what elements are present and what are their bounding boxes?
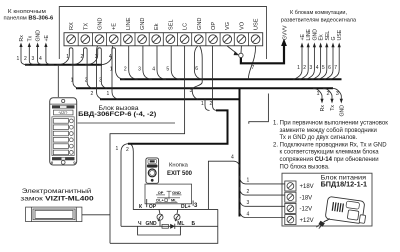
svg-text:GND: GND: [98, 18, 104, 30]
svg-text:OP: OP: [158, 190, 164, 195]
svg-text:4: 4: [247, 211, 250, 217]
svg-text:LINE: LINE: [306, 28, 312, 40]
svg-text:6: 6: [195, 66, 198, 72]
svg-text:3: 3: [336, 91, 339, 97]
svg-text:-18V: -18V: [300, 195, 313, 201]
svg-text:ПО блока вызова.: ПО блока вызова.: [280, 164, 330, 170]
svg-text:1: 1: [247, 178, 250, 184]
svg-text:3: 3: [247, 200, 250, 206]
svg-text:4: 4: [39, 56, 42, 62]
svg-text:2: 2: [247, 189, 250, 195]
svg-text:G: G: [331, 36, 337, 40]
svg-text:4: 4: [316, 65, 319, 71]
svg-text:2: 2: [210, 101, 213, 107]
svg-text:3: 3: [190, 88, 193, 94]
svg-text:SEL: SEL: [168, 19, 174, 30]
svg-text:Rx: Rx: [19, 35, 25, 42]
svg-text:2: 2: [124, 67, 127, 73]
svg-text:GND: GND: [197, 18, 203, 30]
svg-text:2: 2: [327, 91, 330, 97]
svg-text:4: 4: [152, 67, 155, 73]
svg-text:+E: +E: [112, 23, 118, 30]
svg-text:Ek: Ek: [154, 23, 160, 30]
svg-text:БВД-306FCP-6 (-4, -2): БВД-306FCP-6 (-4, -2): [78, 111, 156, 118]
svg-text:ML: ML: [171, 198, 177, 203]
svg-text:GND: GND: [172, 190, 181, 195]
svg-text:3: 3: [310, 65, 313, 71]
svg-text:7: 7: [334, 65, 337, 71]
svg-text:GND: GND: [339, 105, 345, 117]
svg-text:БПД18/12-1-1: БПД18/12-1-1: [321, 181, 368, 188]
svg-text:+E: +E: [300, 33, 306, 40]
svg-text:1: 1: [201, 101, 204, 107]
svg-text:3: 3: [99, 78, 102, 84]
svg-text:OP: OP: [149, 204, 157, 210]
svg-text:USE: USE: [337, 29, 343, 40]
svg-text:Tx: Tx: [27, 35, 33, 41]
svg-text:1: 1: [71, 78, 74, 84]
svg-text:SEL: SEL: [325, 31, 331, 41]
svg-text:EXIT 500: EXIT 500: [167, 171, 193, 177]
svg-text:GND: GND: [36, 30, 42, 42]
svg-text:LINE: LINE: [126, 17, 132, 30]
svg-text:OP: OP: [211, 22, 217, 30]
svg-text:1: 1: [107, 91, 110, 97]
svg-text:2: 2: [91, 91, 94, 97]
svg-text:GND: GND: [140, 18, 146, 30]
svg-text:LC: LC: [183, 23, 189, 30]
svg-text:разветвителям видеосигнала: разветвителям видеосигнала: [281, 18, 357, 24]
svg-text:Электромагнитный: Электромагнитный: [22, 187, 92, 195]
svg-text:7: 7: [252, 65, 255, 71]
svg-text:1: 1: [317, 91, 320, 97]
svg-text:1: 1: [297, 65, 300, 71]
svg-text:Ek: Ek: [319, 34, 325, 40]
svg-text:TX: TX: [83, 23, 89, 30]
svg-text:1: 1: [17, 56, 20, 62]
svg-text:RX: RX: [69, 22, 75, 30]
svg-text:+18V: +18V: [300, 184, 314, 190]
svg-text:4: 4: [231, 155, 234, 161]
svg-text:2: 2: [24, 56, 27, 62]
svg-text:+12V: +12V: [300, 218, 314, 224]
svg-text:1: 1: [116, 146, 119, 152]
svg-text:VO: VO: [239, 21, 245, 30]
svg-text:2: 2: [85, 78, 88, 84]
svg-text:USE: USE: [254, 18, 260, 30]
svg-text:Кнопка: Кнопка: [169, 163, 189, 169]
svg-text:к соответствующим клеммам блок: к соответствующим клеммам блока: [280, 150, 380, 156]
svg-text:5: 5: [322, 65, 325, 71]
svg-text:панелям BS-306-6: панелям BS-306-6: [4, 16, 55, 22]
svg-text:К кнопочным: К кнопочным: [8, 9, 46, 15]
svg-text:·VIZIT·: ·VIZIT·: [58, 111, 68, 115]
svg-text:замкните между собой проводник: замкните между собой проводники: [280, 127, 377, 134]
svg-text:2: 2: [126, 147, 129, 153]
svg-text:4: 4: [109, 54, 112, 60]
svg-text:замок VIZIT-ML400: замок VIZIT-ML400: [20, 195, 94, 202]
svg-text:3: 3: [138, 67, 141, 73]
svg-text:-12V: -12V: [300, 207, 313, 213]
svg-text:DL+: DL+: [156, 198, 164, 203]
svg-text:5: 5: [166, 67, 169, 73]
svg-text:1: 1: [66, 54, 69, 60]
svg-text:GND: GND: [312, 29, 318, 41]
svg-text:3: 3: [32, 56, 35, 62]
svg-text:К блокам коммутации,: К блокам коммутации,: [290, 10, 348, 16]
svg-text:+E: +E: [44, 34, 50, 41]
svg-text:6: 6: [328, 65, 331, 71]
svg-text:Tx: Tx: [330, 105, 336, 111]
svg-text:2: 2: [81, 54, 84, 60]
svg-text:1: 1: [110, 67, 113, 73]
svg-text:VG: VG: [225, 22, 231, 30]
svg-text:2. Подключите проводники Rx, Т: 2. Подключите проводники Rx, Тх и GND: [273, 142, 387, 148]
svg-text:Тх и GND до двух сигналов.: Тх и GND до двух сигналов.: [280, 135, 358, 141]
svg-text:Rx: Rx: [320, 105, 326, 112]
svg-text:2: 2: [303, 65, 306, 71]
svg-text:DL+: DL+: [181, 204, 191, 210]
svg-text:сопряжения CU-14 при обновлени: сопряжения CU-14 при обновлении: [280, 157, 379, 163]
svg-text:GVVV: GVVV: [283, 25, 289, 40]
svg-text:1. При первичном выполнении ус: 1. При первичном выполнении установок: [273, 121, 388, 127]
